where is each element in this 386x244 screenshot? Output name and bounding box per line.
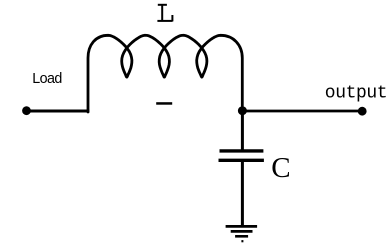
ground bar 2 (middle): [231, 230, 253, 233]
svg-text:output: output: [325, 84, 386, 104]
wire from capacitor bottom plate down to ground: [241, 161, 244, 227]
label L: [157, 5, 172, 22]
ground bar 1 (top widest): [226, 225, 258, 228]
capacitor C bottom plate: [219, 159, 264, 162]
svg-text:Load: Load: [32, 71, 62, 87]
minus polarity mark under inductor: [156, 102, 172, 105]
wire output horizontal: [242, 110, 362, 113]
ground tick (smallest mark): [241, 240, 243, 242]
node junction dot at inductor/capacitor/output: [238, 106, 247, 115]
node output terminal dot: [358, 107, 367, 116]
svg-text:C: C: [271, 152, 290, 184]
capacitor C top plate: [220, 149, 264, 152]
ground bar 3 (bottom): [235, 235, 248, 238]
wire left horizontal from Load terminal to inductor riser: [27, 110, 90, 113]
inductor L (coil with left and right riser wires): [88, 35, 242, 112]
wire from junction node down to capacitor top plate: [241, 111, 244, 151]
node Load terminal dot: [22, 106, 31, 115]
